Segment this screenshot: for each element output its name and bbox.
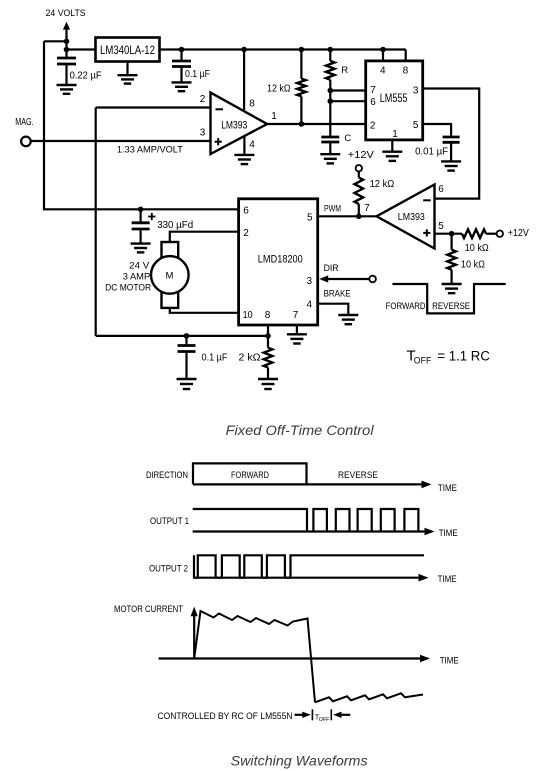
svg-text:LMD18200: LMD18200	[258, 254, 303, 266]
wire U2A output to LM555 pin2	[267, 123, 366, 125]
junction dot 330uF	[138, 207, 144, 213]
svg-text:DIRECTION: DIRECTION	[146, 470, 188, 480]
junction dot sense cap	[184, 333, 190, 339]
wire pin2 to motor	[170, 232, 239, 242]
capacitor 0.22uF	[57, 57, 76, 60]
svg-text:0.01 µF: 0.01 µF	[415, 147, 448, 158]
resistor R timing	[329, 50, 331, 62]
junction dot rail 0.1uF	[179, 47, 185, 53]
junction dot rail R	[328, 47, 334, 53]
ground 0.01uF	[441, 160, 461, 162]
svg-text:Switching Waveforms: Switching Waveforms	[231, 753, 368, 768]
ground regulator U1	[126, 62, 128, 75]
svg-text:10: 10	[243, 310, 253, 321]
svg-text:24 VOLTS: 24 VOLTS	[46, 8, 86, 19]
svg-text:1.33 AMP/VOLT: 1.33 AMP/VOLT	[117, 144, 183, 155]
wire pin4 to rail	[382, 50, 384, 61]
svg-text:+12V: +12V	[348, 150, 374, 161]
svg-text:M: M	[166, 271, 174, 282]
axis motor-current vertical	[193, 614, 195, 659]
svg-text:BRAKE: BRAKE	[324, 289, 351, 300]
capacitor C timing	[321, 136, 339, 139]
ground 0.1uF	[172, 81, 192, 83]
svg-text:6: 6	[243, 206, 249, 217]
svg-text:OFF: OFF	[414, 356, 432, 367]
svg-text:LM340LA-12: LM340LA-12	[100, 43, 155, 57]
wire pin5 LM555	[423, 124, 452, 137]
svg-text:PWM: PWM	[324, 204, 341, 215]
resistor 10k shunt	[451, 234, 453, 250]
wire rail-top branch	[44, 40, 67, 42]
ground 0.22uF	[57, 84, 77, 86]
resistor 12k to +12V	[358, 171, 360, 177]
svg-text:5: 5	[307, 213, 313, 224]
svg-text:5: 5	[413, 120, 419, 131]
svg-text:= 1.1 RC: = 1.1 RC	[437, 348, 490, 363]
junction dot 24V-A	[64, 39, 70, 45]
junction dot rail 12k	[299, 47, 305, 53]
wire pin2 input	[96, 106, 211, 108]
svg-text:0.22 µF: 0.22 µF	[70, 71, 102, 82]
resistor 2k	[267, 336, 269, 348]
capacitor 330uFd	[140, 209, 142, 223]
svg-text:DIR: DIR	[324, 263, 339, 274]
svg-text:REVERSE: REVERSE	[338, 470, 378, 480]
ground U3 pin1	[391, 140, 393, 152]
svg-text:OUTPUT 2: OUTPUT 2	[149, 564, 188, 574]
svg-text:0.1 µF: 0.1 µF	[202, 353, 228, 364]
waveform DIRECTION	[193, 463, 307, 484]
timer U3 LM555	[366, 61, 423, 140]
wire R-C node	[329, 91, 331, 138]
svg-text:12 kΩ: 12 kΩ	[370, 179, 395, 190]
svg-text:8: 8	[249, 99, 255, 110]
motor M 24V DC	[162, 242, 179, 259]
svg-text:8: 8	[403, 66, 409, 77]
wire pin3 output route	[423, 89, 480, 199]
junction dot 12k bottom	[299, 121, 305, 127]
svg-text:2: 2	[200, 94, 206, 105]
svg-text:10 kΩ: 10 kΩ	[465, 243, 489, 254]
svg-text:3 AMP: 3 AMP	[123, 271, 151, 282]
svg-text:TIME: TIME	[439, 528, 458, 538]
resistor 10k series	[462, 229, 486, 238]
svg-text:3: 3	[200, 128, 206, 139]
ground 10k shunt	[442, 283, 462, 285]
svg-text:330 µFd: 330 µFd	[157, 220, 193, 231]
svg-text:4: 4	[307, 299, 313, 310]
axis OUTPUT2 time	[194, 577, 424, 579]
op-amp U2B LM393 body	[377, 185, 435, 249]
svg-text:MOTOR CURRENT: MOTOR CURRENT	[114, 604, 183, 614]
svg-text:24 V: 24 V	[129, 260, 150, 271]
axis OUTPUT1 time	[193, 530, 430, 532]
waveform motor current	[194, 611, 315, 702]
junction dot pin6 node	[328, 98, 334, 104]
ground capacitor C	[320, 153, 340, 155]
wire 24V to regulator input	[67, 48, 96, 50]
svg-text:OUTPUT 1: OUTPUT 1	[150, 516, 189, 526]
svg-text:LM555: LM555	[380, 93, 408, 105]
svg-text:2: 2	[243, 228, 249, 239]
wire pin6 LM555	[330, 100, 365, 102]
junction dot PWM	[356, 214, 362, 220]
junction dot divider	[449, 231, 455, 237]
svg-text:Fixed Off-Time Control: Fixed Off-Time Control	[226, 423, 375, 438]
svg-text:CONTROLLED BY RC OF LM555N: CONTROLLED BY RC OF LM555N	[158, 711, 293, 722]
svg-text:3: 3	[307, 276, 313, 287]
axis DIRECTION time	[193, 483, 427, 485]
terminal DIR	[369, 276, 376, 283]
ground 2k	[258, 378, 278, 380]
wire pin8 to rail	[243, 50, 245, 112]
junction dot rail pin4	[380, 47, 386, 53]
op-amp U2A LM393 body	[211, 93, 268, 154]
svg-text:LM393: LM393	[398, 211, 425, 223]
svg-text:1: 1	[271, 111, 277, 122]
svg-text:5: 5	[438, 221, 444, 232]
svg-text:LM393: LM393	[221, 119, 247, 131]
waveform OUTPUT 1	[193, 509, 307, 532]
svg-text:1: 1	[392, 129, 398, 140]
ground BRAKE	[338, 314, 358, 316]
junction dot sense 2k	[265, 333, 271, 339]
svg-text:6: 6	[370, 97, 376, 108]
wire 24V rail to pin6	[44, 41, 239, 209]
axis motor-current time	[159, 657, 425, 659]
capacitor 0.1uF sense	[185, 336, 187, 346]
dimension T_OFF marker	[295, 714, 304, 716]
svg-text:C: C	[344, 133, 351, 144]
wire sense rail vertical	[95, 108, 97, 336]
ground 0.1uF sense	[177, 378, 197, 380]
wire +12V rail	[160, 48, 406, 50]
svg-text:R: R	[341, 65, 348, 76]
wire pin7 LM555	[330, 89, 365, 91]
wire MAG to pin3	[31, 140, 211, 142]
terminal +12V right	[497, 231, 503, 237]
wire pin8 sense	[267, 325, 269, 336]
wire PWM	[318, 215, 377, 217]
wire motor to pin10	[170, 308, 239, 313]
svg-text:DC MOTOR: DC MOTOR	[105, 283, 151, 294]
wire BRAKE pin4	[318, 304, 349, 315]
wire pin8 to rail	[405, 50, 407, 61]
svg-text:MAG.: MAG.	[15, 117, 34, 128]
svg-text:TIME: TIME	[438, 574, 457, 584]
junction dot rail pin8	[241, 47, 247, 53]
wire DIR input	[326, 278, 369, 280]
wire sense bottom	[96, 335, 268, 337]
ground 330uFd	[131, 242, 151, 244]
capacitor 0.1uF	[180, 50, 182, 62]
junction dot R bottom	[328, 88, 334, 94]
capacitor 0.01uF	[443, 136, 460, 139]
svg-text:7: 7	[293, 310, 299, 321]
H-bridge U4 LMD18200	[239, 199, 318, 325]
svg-text:4: 4	[380, 66, 386, 77]
svg-text:FORWARD: FORWARD	[386, 301, 426, 312]
svg-text:TIME: TIME	[440, 656, 459, 666]
svg-text:2: 2	[370, 120, 376, 131]
svg-text:6: 6	[438, 184, 444, 195]
svg-text:12 kΩ: 12 kΩ	[267, 84, 291, 95]
ground U4 pin7	[296, 325, 298, 334]
svg-text:TIME: TIME	[438, 483, 457, 493]
regulator U1 LM340LA-12	[96, 38, 160, 62]
ground U2A pin4	[243, 136, 245, 154]
wire pin5 plus input	[435, 233, 463, 235]
svg-text:FORWARD: FORWARD	[231, 470, 269, 480]
junction dot 24V-B	[64, 47, 70, 53]
resistor 12k pullup	[300, 50, 302, 79]
svg-text:2 kΩ: 2 kΩ	[239, 353, 262, 364]
svg-text:REVERSE: REVERSE	[432, 301, 470, 312]
svg-text:7: 7	[370, 85, 376, 96]
waveform DIR forward-reverse	[392, 284, 505, 313]
svg-text:3: 3	[413, 85, 419, 96]
svg-text:4: 4	[249, 140, 255, 151]
svg-text:OFF: OFF	[319, 717, 330, 723]
svg-text:+12V: +12V	[508, 228, 529, 239]
svg-text:10 kΩ: 10 kΩ	[461, 259, 485, 270]
waveform OUTPUT 2	[194, 555, 424, 577]
svg-text:0.1 µF: 0.1 µF	[185, 69, 210, 80]
svg-text:8: 8	[265, 310, 271, 321]
svg-text:7: 7	[364, 203, 370, 214]
